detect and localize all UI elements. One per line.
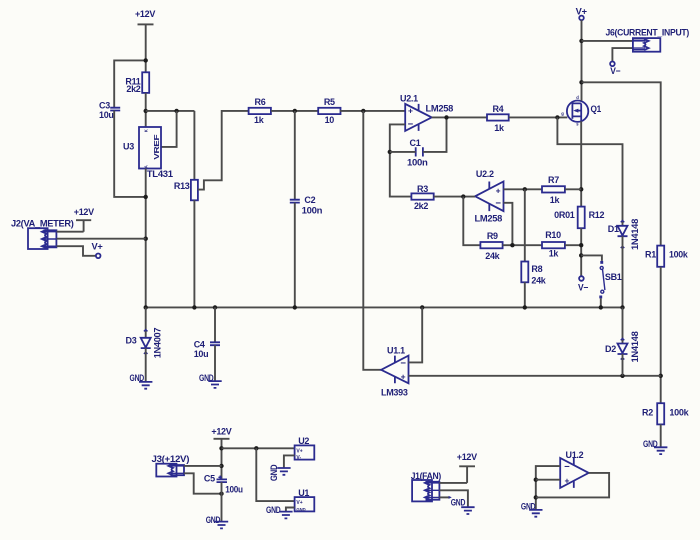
- wire +12V stem to R11: [145, 24, 147, 72]
- svg-text:J3(+12V): J3(+12V): [152, 454, 190, 464]
- svg-text:K: K: [144, 129, 149, 132]
- ground U1: [266, 505, 293, 519]
- junction: [144, 58, 148, 62]
- junction: [219, 464, 223, 468]
- svg-text:U3: U3: [123, 141, 134, 151]
- svg-text:R2: R2: [642, 408, 653, 418]
- svg-text:−: −: [408, 119, 414, 130]
- diode D3: [126, 328, 163, 359]
- svg-text:+: +: [408, 106, 413, 116]
- junction: [361, 109, 365, 113]
- power +12V at J2: [74, 207, 94, 232]
- wire +12V rail to U2: [222, 447, 295, 449]
- wire U2 V- pin to GND: [284, 455, 295, 467]
- svg-text:R8: R8: [531, 264, 542, 274]
- op-amp U2.2: [475, 169, 504, 223]
- wire J1 pin2 to GND: [439, 490, 468, 507]
- junction: [219, 446, 223, 450]
- op-amp U2 power part: [295, 436, 315, 461]
- wire U2.2 plus to R7: [504, 188, 543, 190]
- svg-text:LM258: LM258: [475, 213, 503, 223]
- op-amp U1.2: [560, 450, 589, 488]
- wire R12 bottom to V- terminal: [580, 228, 582, 276]
- wire C4 top lead: [214, 307, 216, 342]
- wire R9 left lead: [463, 197, 480, 246]
- junction: [444, 115, 448, 119]
- svg-text:D3: D3: [126, 336, 137, 346]
- svg-text:GND: GND: [269, 464, 279, 481]
- resistor R5: [318, 97, 340, 125]
- svg-text:TL431: TL431: [147, 169, 173, 179]
- node V- terminal SB1: [578, 276, 588, 292]
- svg-text:2k2: 2k2: [414, 201, 428, 211]
- svg-text:g: g: [561, 111, 564, 116]
- wire C3 top branch: [114, 60, 146, 107]
- junction: [144, 305, 148, 309]
- svg-text:R10: R10: [545, 230, 561, 240]
- resistor R10: [542, 230, 565, 259]
- wire R11 bottom to U3 K pin: [145, 93, 147, 127]
- svg-text:+: +: [401, 372, 406, 382]
- svg-text:R1: R1: [645, 249, 656, 259]
- wire D3 cathode to GND: [145, 348, 147, 382]
- wire U2.1 minus input to R3: [390, 124, 412, 196]
- junction: [174, 109, 178, 113]
- node V- terminal J6: [610, 62, 620, 76]
- svg-text:GND: GND: [296, 507, 305, 512]
- wire R7 right to source node: [565, 188, 581, 190]
- svg-text:U1.2: U1.2: [566, 450, 584, 460]
- wire R8 bottom to rail: [524, 282, 526, 307]
- wire J6 pin1: [582, 40, 633, 42]
- wire R9 to R10: [503, 244, 542, 246]
- svg-text:R5: R5: [324, 97, 335, 107]
- wire R8 top lead: [524, 189, 526, 261]
- wire Q1 source down to R12: [580, 121, 582, 206]
- junction: [579, 243, 583, 247]
- svg-text:GND: GND: [451, 498, 466, 508]
- svg-text:−: −: [400, 358, 406, 369]
- junction: [579, 187, 583, 191]
- resistor R12: [554, 207, 604, 229]
- transistor Q1: [561, 95, 601, 126]
- wire U1.1 plus input to D2 node: [409, 375, 661, 377]
- ground C4: [199, 373, 222, 388]
- wire J2 pin3 to V+ terminal: [57, 246, 96, 256]
- resistor R13: [174, 180, 198, 201]
- svg-text:V+: V+: [296, 500, 302, 506]
- svg-text:V−: V−: [578, 282, 588, 292]
- wire U1.2 minus input: [536, 466, 560, 510]
- resistor R3: [411, 184, 433, 211]
- junction: [534, 478, 538, 482]
- diode D1: [608, 219, 640, 250]
- svg-text:C1: C1: [410, 138, 421, 148]
- wire rail node VREF: [146, 110, 195, 112]
- svg-text:1k: 1k: [494, 123, 505, 133]
- junction: [293, 109, 297, 113]
- svg-text:D2: D2: [605, 344, 616, 354]
- power +12V bottom: [211, 426, 231, 438]
- svg-text:V+: V+: [92, 242, 103, 252]
- wire U1.1 minus input to rail: [409, 307, 423, 362]
- svg-text:1N4148: 1N4148: [630, 219, 640, 250]
- power +12V top: [135, 9, 155, 24]
- node V+ terminal top: [576, 6, 587, 20]
- wire R6 to R5: [271, 110, 318, 112]
- resistor R9: [480, 231, 502, 261]
- svg-text:1N4148: 1N4148: [630, 331, 640, 362]
- ground U1.2: [521, 501, 543, 516]
- wire V+ to Q1 drain: [581, 20, 583, 101]
- junction: [254, 446, 258, 450]
- connector J2: [11, 218, 74, 249]
- svg-text:Q1: Q1: [591, 104, 602, 114]
- svg-text:R13: R13: [174, 181, 190, 191]
- wire U1.2 feedback loop: [536, 473, 609, 498]
- junction: [523, 305, 527, 309]
- wire U2.1 output to R4: [432, 116, 487, 118]
- svg-text:VREF: VREF: [152, 134, 161, 160]
- connector J6: [606, 28, 690, 52]
- svg-text:100u: 100u: [225, 485, 243, 495]
- svg-text:100k: 100k: [669, 408, 689, 418]
- svg-text:J6(CURRENT_INPUT): J6(CURRENT_INPUT): [606, 28, 690, 38]
- ground R2: [643, 439, 667, 454]
- switch SB1: [599, 261, 622, 299]
- wire J1 pin3 stub: [439, 496, 452, 499]
- svg-text:V−: V−: [610, 66, 620, 76]
- svg-text:A: A: [144, 165, 149, 168]
- junction: [659, 374, 663, 378]
- svg-text:100n: 100n: [407, 157, 428, 167]
- svg-text:10u: 10u: [99, 110, 114, 120]
- svg-text:C2: C2: [304, 195, 315, 205]
- wire D3 top lead: [145, 307, 147, 337]
- svg-text:+: +: [564, 475, 569, 485]
- svg-text:24k: 24k: [485, 251, 500, 261]
- junction: [144, 195, 148, 199]
- wire C2 bottom to rail: [294, 203, 296, 308]
- svg-text:10: 10: [325, 115, 335, 125]
- wire U1 V+ branch: [256, 448, 294, 501]
- svg-text:C4: C4: [194, 340, 205, 350]
- svg-text:d: d: [576, 95, 579, 100]
- ground J1: [451, 498, 475, 514]
- wire R4 to Q1 gate: [509, 116, 568, 118]
- junction: [144, 109, 148, 113]
- junction: [293, 305, 297, 309]
- wire J2 pin1: [57, 231, 84, 233]
- resistor R8: [521, 262, 547, 286]
- wire R13 tap to R6: [198, 111, 249, 190]
- wire +12V stem to C5: [221, 439, 223, 480]
- svg-text:2k2: 2k2: [126, 84, 140, 94]
- svg-text:+: +: [496, 185, 501, 195]
- wire gate node to D1 anode: [557, 117, 622, 225]
- junction: [620, 305, 624, 309]
- op-amp U3 TL431: [123, 127, 173, 179]
- junction: [599, 305, 603, 309]
- svg-text:R6: R6: [255, 97, 266, 107]
- wire long vertical to U1.1 output: [363, 111, 381, 370]
- wire C3 bottom to U3 anode node: [114, 111, 146, 197]
- svg-text:R3: R3: [417, 184, 428, 194]
- junction: [213, 305, 217, 309]
- connector J1: [411, 471, 442, 502]
- svg-text:U2.1: U2.1: [400, 93, 418, 103]
- svg-text:100k: 100k: [669, 249, 689, 259]
- wire R13 top lead: [193, 111, 195, 180]
- svg-text:+12V: +12V: [457, 452, 477, 462]
- svg-text:1N4007: 1N4007: [153, 328, 163, 359]
- svg-text:R9: R9: [487, 231, 498, 241]
- svg-text:+12V: +12V: [74, 207, 94, 217]
- ground U2: [269, 464, 291, 481]
- svg-text:R7: R7: [548, 175, 559, 185]
- wire to SB1: [581, 255, 602, 261]
- svg-text:0R01: 0R01: [554, 210, 575, 220]
- wire R1 bottom to R2 top: [660, 267, 662, 403]
- wire D2 top lead: [622, 307, 624, 343]
- wire U1.2 plus input: [536, 479, 560, 481]
- ground D3: [130, 373, 153, 389]
- wire U2.2 minus to R9 right: [504, 203, 513, 245]
- wire D1 cathode to rail: [622, 236, 624, 307]
- junction: [579, 80, 583, 84]
- wire R3 to U2.2 output: [434, 196, 475, 198]
- wire R2 bottom to GND: [660, 424, 662, 447]
- junction: [510, 243, 514, 247]
- junction: [555, 115, 559, 119]
- resistor R6: [249, 97, 271, 125]
- node V+ terminal J2: [92, 242, 103, 259]
- capacitor C2: [290, 195, 322, 215]
- svg-text:GND: GND: [206, 515, 221, 525]
- wire U1 GND pin: [286, 508, 295, 512]
- diode D2: [605, 331, 640, 362]
- wire C2 top lead: [294, 111, 296, 200]
- wire R13 bottom to rail: [193, 200, 195, 307]
- svg-text:J2(VA_METER): J2(VA_METER): [11, 218, 74, 228]
- wire R10 right: [565, 244, 581, 246]
- wire J2 pin2 to main vertical: [57, 238, 146, 240]
- junction: [219, 492, 223, 496]
- svg-text:−: −: [495, 198, 501, 209]
- junction: [192, 305, 196, 309]
- capacitor C3: [99, 100, 120, 120]
- svg-text:LM258: LM258: [426, 104, 454, 114]
- junction: [579, 39, 583, 43]
- junction: [461, 194, 465, 198]
- svg-text:24k: 24k: [531, 276, 546, 286]
- svg-text:−: −: [564, 462, 570, 473]
- resistor R4: [487, 104, 509, 133]
- svg-text:GND: GND: [266, 505, 281, 515]
- svg-text:V-: V-: [296, 455, 301, 461]
- junction: [620, 374, 624, 378]
- junction: [579, 253, 583, 257]
- wire bottom rail: [146, 306, 623, 308]
- op-amp U1.1: [381, 345, 409, 397]
- wire J3 pin2: [184, 473, 222, 493]
- svg-text:R4: R4: [492, 104, 503, 114]
- svg-text:C3: C3: [99, 100, 110, 110]
- wire C1 left lead: [390, 151, 416, 153]
- svg-text:U1.1: U1.1: [387, 345, 405, 355]
- wire C4 bottom to GND: [214, 345, 216, 381]
- wire SB1 bottom to rail: [600, 298, 602, 307]
- svg-text:100n: 100n: [302, 206, 323, 216]
- resistor R2: [642, 403, 690, 424]
- svg-text:1k: 1k: [550, 195, 561, 205]
- wire V+ branch to R1: [582, 82, 661, 245]
- svg-text:1k: 1k: [549, 248, 560, 258]
- ground C5: [206, 515, 229, 528]
- junction: [388, 150, 392, 154]
- wire J6 pin2 to V- terminal: [612, 48, 633, 61]
- capacitor C4: [194, 340, 220, 360]
- svg-text:SB1: SB1: [605, 272, 622, 282]
- svg-text:+12V: +12V: [135, 9, 155, 19]
- wire U3 anode down to bottom rail: [145, 169, 147, 308]
- svg-text:1k: 1k: [254, 115, 265, 125]
- svg-text:10u: 10u: [194, 349, 209, 359]
- wire R5 to U2.1 plus input: [340, 110, 405, 112]
- wire C5 bottom to GND: [221, 482, 223, 521]
- svg-text:U2.2: U2.2: [476, 169, 494, 179]
- resistor R7: [542, 175, 565, 205]
- svg-text:D1: D1: [608, 224, 619, 234]
- svg-text:V+: V+: [296, 449, 302, 455]
- wire J1 pin1: [439, 482, 467, 484]
- junction: [523, 187, 527, 191]
- op-amp U1 power part: [295, 488, 315, 512]
- wire VREF feedback: [161, 111, 177, 147]
- wire C1 right lead to output: [423, 117, 447, 151]
- wire D2 cathode: [622, 354, 624, 376]
- resistor R1: [645, 246, 689, 267]
- junction: [534, 495, 538, 499]
- junction: [420, 305, 424, 309]
- svg-text:R12: R12: [589, 210, 605, 220]
- svg-text:LM393: LM393: [381, 387, 408, 397]
- power +12V at J1: [457, 452, 477, 483]
- op-amp U2.1: [400, 93, 453, 130]
- resistor R11: [125, 72, 149, 94]
- svg-text:C5: C5: [204, 474, 215, 484]
- wire J3 pin1: [184, 465, 222, 467]
- capacitor C1: [407, 138, 428, 168]
- svg-text:+12V: +12V: [211, 426, 231, 436]
- junction: [144, 237, 148, 241]
- capacitor C5: [204, 474, 243, 495]
- connector J3: [152, 454, 190, 477]
